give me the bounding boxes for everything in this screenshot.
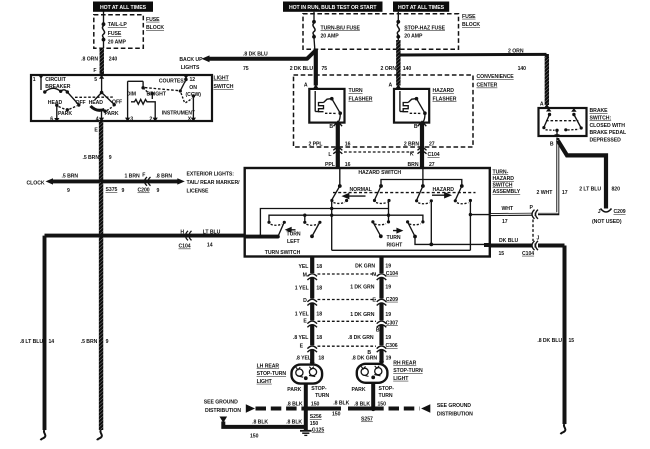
hazard pole D blade	[454, 184, 472, 204]
svg-text:PARK: PARK	[58, 111, 72, 117]
svg-text:STOP-: STOP-	[379, 386, 395, 392]
hazard switch contact dashed row	[333, 192, 476, 194]
svg-text:.8 LT BLU: .8 LT BLU	[20, 339, 43, 345]
svg-text:.8 YEL: .8 YEL	[293, 335, 308, 341]
exterior lights label	[187, 171, 241, 194]
svg-text:HAZARD SWITCH: HAZARD SWITCH	[358, 170, 401, 176]
svg-text:STOP-HAZ FUSE: STOP-HAZ FUSE	[404, 25, 445, 31]
svg-text:C104: C104	[522, 251, 534, 257]
wire 2 PPL 16 (L connector)	[308, 121, 350, 168]
svg-text:LEFT: LEFT	[287, 239, 301, 245]
ground distribution bus (middle + right arrow)	[306, 401, 473, 418]
svg-text:TURN: TURN	[287, 232, 301, 238]
connector D (C209) on YEL	[303, 298, 317, 306]
svg-text:HOT AT ALL TIMES: HOT AT ALL TIMES	[100, 5, 147, 11]
svg-text:DISTRIBUTION: DISTRIBUTION	[205, 408, 241, 414]
hazard switch normal/hazard labels and arrows	[343, 187, 454, 199]
wire 2 DK BLU 75 to turn flasher	[290, 49, 328, 89]
svg-text:20 AMP: 20 AMP	[321, 34, 340, 40]
svg-text:.8 DK GRN: .8 DK GRN	[352, 356, 378, 362]
svg-text:BLOCK: BLOCK	[146, 25, 164, 31]
svg-text:DEPRESSED: DEPRESSED	[590, 137, 622, 143]
internal link c2 down to dk blu line	[430, 201, 432, 245]
svg-text:DK BLU: DK BLU	[499, 238, 518, 244]
fuse TAIL-LP 20 AMP	[102, 12, 128, 49]
svg-text:12: 12	[190, 77, 196, 83]
LT BLU feed inside box	[245, 235, 278, 239]
svg-text:SWITCH: SWITCH	[493, 183, 513, 189]
svg-text:PARK: PARK	[287, 387, 301, 393]
svg-text:.8 BLK: .8 BLK	[252, 419, 268, 425]
svg-text:CONVENIENCE: CONVENIENCE	[477, 74, 515, 80]
svg-text:HEAD: HEAD	[89, 100, 104, 106]
svg-text:17: 17	[502, 219, 508, 225]
wire LT BLU 14 (H C104) horizontal	[45, 229, 245, 249]
svg-text:J: J	[598, 209, 601, 215]
svg-text:18: 18	[316, 264, 322, 270]
svg-text:E: E	[372, 298, 376, 304]
svg-text:DISTRIBUTION: DISTRIBUTION	[437, 411, 473, 417]
internal turn feed line y=215.2	[269, 214, 423, 223]
svg-text:1 DK GRN: 1 DK GRN	[350, 312, 375, 318]
svg-text:PARK: PARK	[105, 111, 119, 117]
svg-text:2: 2	[149, 116, 152, 122]
svg-text:B: B	[550, 142, 554, 148]
svg-text:TURN SWITCH: TURN SWITCH	[265, 250, 301, 256]
dashed connector row links	[318, 274, 377, 346]
svg-text:G125: G125	[312, 428, 325, 434]
svg-text:FLASHER: FLASHER	[433, 96, 457, 102]
svg-text:FUSE: FUSE	[146, 17, 160, 23]
wire .5 BRN 9 lower run	[81, 182, 109, 440]
svg-text:6: 6	[50, 116, 53, 122]
svg-text:75: 75	[243, 66, 249, 72]
svg-text:TURN: TURN	[379, 393, 393, 399]
connector B (C307) on DK GRN	[376, 320, 398, 333]
svg-text:150: 150	[332, 412, 341, 418]
svg-text:B: B	[329, 124, 333, 130]
svg-text:TURN-B/U FUSE: TURN-B/U FUSE	[321, 25, 361, 31]
svg-text:(NOT USED): (NOT USED)	[592, 219, 622, 225]
svg-text:LT BLU: LT BLU	[203, 230, 221, 236]
svg-text:820: 820	[612, 187, 621, 193]
svg-text:HOT AT ALL TIMES: HOT AT ALL TIMES	[398, 5, 445, 11]
svg-text:HAZARD: HAZARD	[493, 176, 515, 182]
svg-text:150: 150	[378, 401, 387, 407]
svg-text:.8 DK GRN: .8 DK GRN	[348, 335, 374, 341]
svg-text:B: B	[414, 124, 418, 130]
wire .8 BLK 150 lower ground lead	[220, 417, 306, 440]
svg-text:1 BRN: 1 BRN	[125, 174, 141, 180]
svg-text:20 AMP: 20 AMP	[404, 34, 423, 40]
wire YEL 18 rear run with connectors	[293, 257, 324, 365]
svg-text:TURN: TURN	[349, 88, 363, 94]
svg-text:2 WHT: 2 WHT	[537, 190, 554, 196]
svg-text:ON: ON	[189, 85, 197, 91]
brake switch	[539, 102, 587, 148]
svg-text:ASSEMBLY: ASSEMBLY	[493, 189, 521, 195]
internal link: contact a down to cross line	[330, 201, 333, 251]
hot at all times label (left)	[93, 2, 153, 12]
svg-text:1 YEL: 1 YEL	[295, 286, 309, 292]
svg-text:RIGHT: RIGHT	[387, 243, 404, 249]
svg-text:.8 ORN: .8 ORN	[81, 56, 98, 62]
svg-text:9: 9	[122, 188, 125, 194]
wire DK GRN 19 rear run with connectors	[348, 257, 391, 364]
svg-text:2 BRN: 2 BRN	[404, 142, 420, 148]
svg-text:RH REAR: RH REAR	[393, 361, 416, 367]
svg-text:C307: C307	[386, 320, 398, 326]
svg-text:TAIL/ REAR MARKER/: TAIL/ REAR MARKER/	[187, 180, 241, 186]
svg-text:9: 9	[157, 188, 160, 194]
svg-text:15: 15	[499, 251, 505, 257]
svg-text:A: A	[540, 102, 544, 108]
svg-text:C209: C209	[386, 297, 398, 303]
hazard pole B blade and bridge	[373, 180, 462, 204]
wire .8 DK BLU 15 right vertical	[537, 246, 574, 435]
wire 2 BRN 27 (K C104 connector)	[404, 121, 440, 168]
fuse block (tail-lp) dashed box	[94, 15, 165, 48]
turn flasher U1	[304, 83, 373, 131]
hot in run bulb test or start label	[283, 2, 383, 12]
svg-text:B: B	[376, 327, 380, 333]
svg-text:J: J	[537, 236, 540, 242]
fuse STOP-HAZ 20 AMP	[396, 12, 445, 42]
svg-text:STOP-TURN: STOP-TURN	[393, 368, 423, 374]
hot at all times label (middle)	[393, 2, 449, 12]
light switch dim/bright rheostat	[125, 81, 167, 122]
svg-text:9: 9	[109, 155, 112, 161]
svg-text:14: 14	[207, 243, 213, 249]
svg-text:C104: C104	[428, 152, 440, 158]
svg-text:14: 14	[49, 339, 55, 345]
svg-text:C104: C104	[386, 271, 398, 277]
light switch box	[31, 75, 234, 121]
wire .5 BRN 9 from light switch pin 4	[82, 121, 111, 181]
svg-text:BRAKE: BRAKE	[590, 108, 609, 114]
svg-text:F: F	[93, 68, 96, 74]
svg-text:STOP-TURN: STOP-TURN	[257, 371, 287, 377]
svg-text:BREAKER: BREAKER	[45, 84, 70, 90]
svg-text:TURN-: TURN-	[493, 170, 509, 176]
svg-text:3: 3	[130, 116, 133, 122]
svg-text:EXTERIOR LIGHTS:: EXTERIOR LIGHTS:	[187, 171, 235, 177]
wire 2 LT BLU 820 to C209 (not used)	[558, 141, 626, 225]
svg-text:2 ORN: 2 ORN	[381, 66, 397, 72]
brake switch label	[590, 108, 627, 143]
svg-text:140: 140	[403, 66, 412, 72]
svg-text:240: 240	[109, 56, 118, 62]
turn left pole 1	[267, 221, 286, 239]
svg-text:LIGHTS: LIGHTS	[181, 65, 200, 71]
wire 2 ORN 140 branch to brake switch	[400, 48, 550, 107]
svg-text:S257: S257	[361, 417, 373, 423]
svg-text:LIGHT: LIGHT	[393, 376, 409, 382]
svg-text:S375: S375	[106, 187, 118, 193]
svg-text:H: H	[180, 229, 184, 235]
svg-text:LIGHT: LIGHT	[214, 76, 230, 82]
svg-text:CLOSED WITH: CLOSED WITH	[590, 123, 626, 129]
svg-text:.8 BLK: .8 BLK	[286, 419, 302, 425]
connector M (C104) on YEL	[303, 272, 317, 280]
svg-text:19: 19	[385, 312, 391, 318]
wire WHT 17 to P connector	[490, 205, 538, 225]
svg-text:OFF: OFF	[112, 100, 122, 106]
internal cross line y=250.3	[332, 249, 471, 251]
svg-text:PARK: PARK	[352, 387, 366, 393]
svg-text:FLASHER: FLASHER	[349, 96, 373, 102]
svg-text:.8 BLK: .8 BLK	[287, 401, 303, 407]
svg-text:16: 16	[345, 142, 351, 148]
svg-text:CENTER: CENTER	[477, 83, 498, 89]
svg-text:2 PPL: 2 PPL	[308, 142, 322, 148]
connector B (C306) on DK GRN	[367, 343, 397, 356]
svg-text:LICENSE: LICENSE	[187, 189, 210, 195]
svg-text:.5 BRN: .5 BRN	[81, 339, 98, 345]
svg-text:.8 DK BLU: .8 DK BLU	[537, 338, 562, 344]
svg-text:TURN: TURN	[387, 235, 401, 241]
light switch circuit breaker	[33, 75, 81, 107]
svg-text:.8 DK BLU: .8 DK BLU	[243, 52, 268, 58]
internal line y=208.5 to LT BLU feed	[260, 209, 388, 236]
splice S257	[361, 406, 376, 423]
svg-text:S256: S256	[310, 414, 322, 420]
svg-text:1: 1	[33, 77, 36, 83]
BRN entry node and hazard blade	[415, 169, 433, 204]
svg-text:19: 19	[386, 356, 392, 362]
dashed link P-J same connector	[532, 220, 534, 242]
svg-text:SEE GROUND: SEE GROUND	[437, 403, 471, 409]
svg-text:DK GRN: DK GRN	[355, 264, 375, 270]
svg-text:L: L	[328, 152, 331, 158]
splice S256	[303, 406, 322, 427]
turn-hazard switch assembly box	[245, 168, 521, 257]
svg-text:FUSE: FUSE	[462, 14, 476, 20]
svg-text:.8 YEL: .8 YEL	[296, 356, 311, 362]
svg-text:9: 9	[106, 339, 109, 345]
dashed link L-K same connector	[344, 151, 415, 153]
connector E (C209) on DK GRN	[372, 297, 398, 306]
svg-text:2 DK BLU: 2 DK BLU	[290, 66, 314, 72]
svg-text:F: F	[142, 173, 145, 179]
svg-text:HAZARD: HAZARD	[433, 187, 455, 193]
hazard flasher U2	[389, 83, 457, 131]
svg-text:LIGHT: LIGHT	[257, 379, 273, 385]
turn left label	[286, 228, 301, 245]
svg-text:18: 18	[316, 335, 322, 341]
svg-text:N: N	[372, 272, 376, 278]
light switch courtesy / on (ccw) contacts	[145, 75, 201, 122]
RH rear stop-turn light	[352, 361, 423, 400]
svg-text:18: 18	[316, 286, 322, 292]
svg-text:A: A	[389, 83, 393, 89]
ground G125	[300, 409, 324, 436]
svg-text:B: B	[367, 350, 371, 356]
PPL entry node and normal blade	[330, 169, 348, 203]
wire 2 WHT 17 from brake switch to P connector	[536, 138, 568, 214]
svg-text:.8 BLK: .8 BLK	[354, 401, 370, 407]
svg-text:75: 75	[322, 66, 328, 72]
ground distribution bus (left arrow)	[204, 400, 306, 414]
svg-text:9: 9	[67, 188, 70, 194]
fuse block (turn/stop fuses) dashed box	[303, 14, 480, 49]
svg-text:CLOCK: CLOCK	[27, 180, 45, 186]
svg-text:.5 BRN: .5 BRN	[62, 174, 79, 180]
internal link d' down / wht takeoff	[469, 201, 490, 251]
svg-text:18: 18	[316, 312, 322, 318]
svg-text:INSTRUMENT: INSTRUMENT	[162, 110, 196, 116]
svg-text:C104: C104	[179, 244, 191, 250]
wire .8 LT BLU 14 left vertical	[20, 236, 54, 441]
svg-text:BLOCK: BLOCK	[462, 22, 480, 28]
internal link b' down through feed	[388, 201, 390, 222]
svg-text:1 DK GRN: 1 DK GRN	[350, 285, 375, 291]
svg-text:15: 15	[569, 338, 575, 344]
svg-text:SWITCH:: SWITCH:	[590, 116, 612, 122]
svg-text:C200: C200	[138, 188, 150, 194]
svg-text:FUSE: FUSE	[108, 31, 122, 37]
svg-text:20 AMP: 20 AMP	[108, 40, 127, 46]
svg-text:OFF: OFF	[76, 100, 86, 106]
LH rear stop-turn light	[257, 362, 330, 399]
svg-text:E: E	[94, 128, 98, 134]
svg-text:DIM: DIM	[127, 92, 136, 98]
svg-text:18: 18	[318, 356, 324, 362]
svg-text:5: 5	[94, 77, 97, 83]
svg-text:150: 150	[310, 421, 319, 427]
svg-text:HAZARD: HAZARD	[433, 88, 455, 94]
wire .8 BLK 150 from LH light	[287, 384, 320, 409]
svg-text:17: 17	[562, 190, 568, 196]
svg-text:BRAKE PEDAL: BRAKE PEDAL	[590, 130, 627, 136]
svg-text:140: 140	[518, 66, 527, 72]
svg-text:NORMAL: NORMAL	[350, 187, 372, 193]
svg-text:A: A	[304, 83, 308, 89]
svg-text:4: 4	[96, 116, 99, 122]
connector N (C104) on DK GRN	[372, 271, 398, 280]
wire 2 ORN 140 to hazard flasher	[381, 40, 412, 88]
svg-text:19: 19	[385, 264, 391, 270]
turn right label	[387, 229, 404, 249]
svg-text:HOT IN RUN, BULB TEST OR START: HOT IN RUN, BULB TEST OR START	[289, 5, 377, 11]
turn left pole 2 (YEL pivot)	[303, 221, 321, 239]
svg-text:BACK UP: BACK UP	[179, 57, 203, 63]
fuse TURN-B/U 20 AMP	[312, 12, 360, 49]
svg-text:TURN: TURN	[315, 393, 329, 399]
svg-text:D: D	[303, 298, 307, 304]
svg-text:E: E	[303, 319, 307, 325]
light switch head/off/park contacts (left)	[48, 100, 86, 123]
svg-text:WHT: WHT	[502, 206, 514, 212]
dk blu collector line inside box	[415, 237, 490, 247]
turn right pole 1 (DK GRN pivot)	[371, 220, 390, 238]
svg-text:.5 BRN: .5 BRN	[82, 155, 99, 161]
wire .8 BLK 150 from RH light	[354, 383, 386, 408]
clock feed line with arrows (S375 / C200)	[27, 173, 185, 194]
svg-text:LH REAR: LH REAR	[257, 364, 280, 370]
connector E (C306) on YEL	[300, 344, 317, 353]
svg-text:2 ORN: 2 ORN	[508, 48, 524, 54]
svg-text:.8 BRN: .8 BRN	[156, 174, 173, 180]
turn right pole 2 (DK BLU pivot)	[406, 220, 425, 238]
svg-text:150: 150	[311, 401, 320, 407]
wire .8 DK BLU 75 arrow to back up lights	[179, 50, 316, 72]
wire .8 ORN 240 from fuse to light switch pin 5	[81, 48, 117, 75]
svg-text:M: M	[303, 272, 307, 278]
svg-text:2 LT BLU: 2 LT BLU	[579, 187, 601, 193]
svg-text:150: 150	[250, 434, 259, 440]
svg-text:19: 19	[385, 285, 391, 291]
svg-text:CIRCUIT: CIRCUIT	[45, 77, 66, 83]
svg-text:TAIL-LP: TAIL-LP	[108, 22, 128, 28]
svg-text:YEL: YEL	[299, 264, 309, 270]
svg-text:.8 BLK: .8 BLK	[333, 401, 349, 407]
svg-text:27: 27	[429, 142, 435, 148]
light switch head/off/park contacts (pin 5)	[75, 75, 122, 134]
svg-text:19: 19	[385, 335, 391, 341]
svg-text:1 YEL: 1 YEL	[295, 312, 309, 318]
wire DK BLU 15 out to J C104	[490, 236, 565, 257]
svg-text:STOP-: STOP-	[311, 386, 327, 392]
convenience center dashed box	[294, 74, 515, 147]
svg-text:C306: C306	[386, 343, 398, 349]
svg-text:SWITCH: SWITCH	[214, 84, 234, 90]
svg-text:C209: C209	[614, 209, 626, 215]
svg-text:SEE GROUND: SEE GROUND	[204, 400, 238, 406]
connector E (C307) on YEL	[303, 319, 317, 328]
